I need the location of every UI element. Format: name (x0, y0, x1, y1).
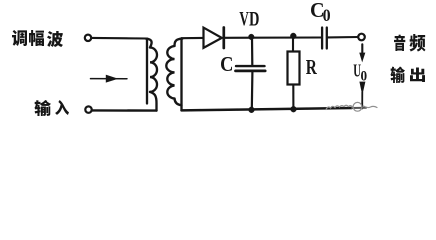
label 输入 (input) (35, 100, 70, 116)
node: junction dot (R bottom) (291, 106, 297, 112)
wire: secondary top to diode anode (182, 37, 204, 39)
node: junction dot (diode/C) (249, 34, 255, 40)
label U0 (354, 65, 367, 81)
wire: top input lead (92, 37, 148, 40)
input terminal (bottom) (85, 106, 91, 112)
diode VD (204, 28, 224, 49)
wire: bottom input lead (92, 109, 157, 112)
capacitor C (236, 37, 266, 110)
label 调幅波 (AM wave) (12, 30, 63, 47)
wire: diode cathode to C0 (225, 36, 321, 38)
voltage arrow U0 (lower head) (360, 82, 365, 109)
transformer T1 secondary winding (166, 38, 182, 110)
voltage arrow U0 (upper head) (361, 44, 363, 53)
label 音频 (audio) (394, 34, 426, 52)
node: junction dot (C bottom) (249, 107, 255, 113)
label C0 (311, 3, 330, 21)
label C (221, 57, 232, 71)
transformer T1 primary winding (146, 39, 157, 111)
capacitor C0 (322, 28, 358, 49)
input terminal (top) (85, 35, 91, 41)
label VD (239, 12, 258, 26)
node: junction dot (R top) (290, 33, 296, 39)
wire: bottom rail (182, 108, 353, 110)
label 输出 (output) (390, 66, 424, 83)
output terminal (358, 34, 365, 41)
watermark scribble (grey) (326, 102, 377, 111)
signal flow arrow (input) (91, 75, 128, 82)
resistor R (288, 36, 300, 109)
label R (306, 60, 317, 74)
